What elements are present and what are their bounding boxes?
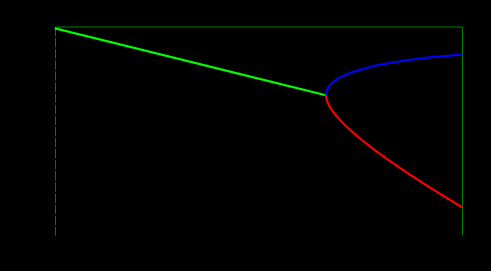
plot border top [55,26,463,28]
plot border right [462,27,464,236]
stable fixed-point branch (green line) [55,28,327,95]
plot border left (dashed y-axis) [55,27,57,236]
upper bifurcation branch (blue curve) [326,55,463,96]
lower bifurcation branch (red curve) [326,95,463,207]
